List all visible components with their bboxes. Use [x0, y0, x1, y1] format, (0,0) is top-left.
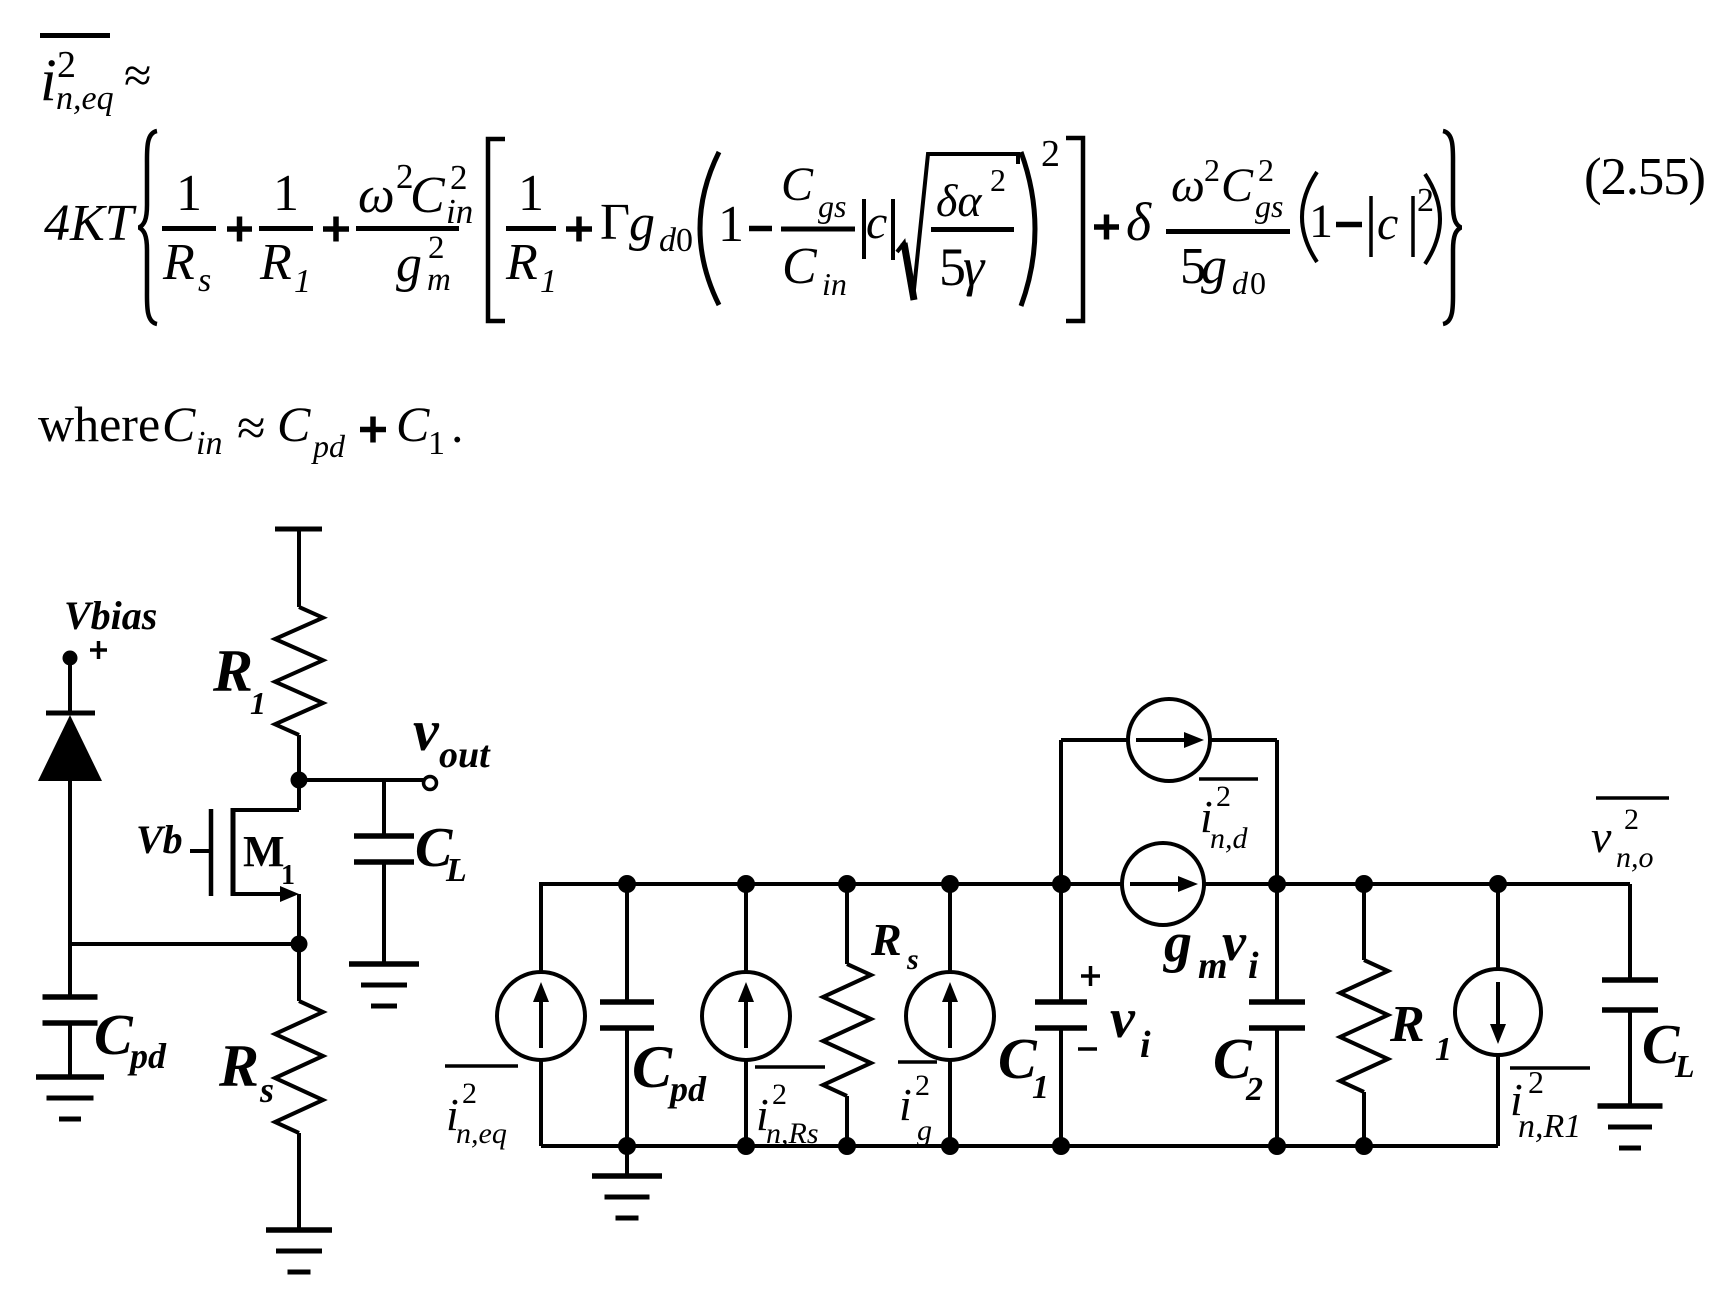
svg-text:n,R1: n,R1 [1518, 1108, 1581, 1145]
ground below CL (left circuit) [349, 964, 419, 1006]
svg-text:v: v [1110, 988, 1136, 1050]
label i2nd [1199, 779, 1258, 855]
controlled source gm*vi [1122, 843, 1204, 925]
label i2neq [445, 1066, 518, 1150]
label vno (output noise voltage) [1591, 798, 1669, 874]
Vbias terminal [63, 593, 158, 666]
capacitor C2 [1213, 884, 1305, 1146]
svg-text:out: out [439, 734, 491, 776]
svg-text:v: v [1222, 912, 1247, 972]
current source i2g [906, 884, 994, 1146]
big right brace } [1443, 131, 1461, 324]
capacitor CL (left circuit) [354, 780, 467, 964]
bottom rail (right circuit) [541, 1144, 1498, 1148]
output terminal v_out (open circle) [413, 698, 491, 790]
capacitor Cpd (left circuit) [43, 944, 168, 1077]
current source i2nRs [702, 884, 790, 1146]
svg-text:2: 2 [1245, 1071, 1263, 1108]
svg-text:M: M [243, 827, 285, 876]
overline of i2neq (equation head) [40, 33, 110, 38]
absolute value bars |c| (second) [1371, 196, 1413, 257]
svg-text:s: s [259, 1070, 274, 1110]
svg-text:L: L [445, 852, 467, 889]
resistor Rs (left circuit) [218, 944, 323, 1230]
label i2nR1 [1510, 1064, 1590, 1145]
capacitor Cpd (right circuit) [600, 884, 707, 1146]
node dots Cpd branch [618, 875, 636, 1155]
svg-text:1: 1 [1032, 1069, 1049, 1106]
svg-text:i: i [899, 1079, 912, 1130]
svg-text:pd: pd [667, 1069, 707, 1109]
svg-text:2: 2 [1528, 1064, 1544, 1100]
VDD supply rail (left circuit) [275, 529, 322, 607]
svg-text:pd: pd [127, 1036, 167, 1076]
node source/input (junction dot) [291, 936, 308, 953]
ground below bottom rail (right circuit) [592, 1146, 662, 1218]
svg-text:R: R [1389, 996, 1425, 1053]
svg-text:n,Rs: n,Rs [766, 1117, 819, 1150]
vi plus/minus marks [1078, 966, 1100, 1049]
resistor Rs (right circuit) [823, 884, 919, 1146]
node dots R1 branch [1355, 875, 1373, 1155]
svg-text:C: C [632, 1034, 673, 1100]
node dot i2nR1 top [1489, 875, 1507, 893]
label i2nRs [755, 1067, 825, 1150]
node dots gm cell [1053, 875, 1286, 893]
svg-text:n,eq: n,eq [456, 1117, 507, 1150]
top rail (right circuit) [539, 882, 1630, 886]
node dots i2g branch [941, 875, 959, 1155]
small right paren ) [1425, 174, 1440, 264]
svg-text:R: R [870, 914, 902, 965]
node dot C2 bottom [1268, 1137, 1286, 1155]
svg-text:1: 1 [1435, 1031, 1452, 1068]
label Vb (gate bias) [136, 817, 183, 862]
svg-text:L: L [1674, 1048, 1695, 1084]
ground below CL (right circuit) [1598, 1106, 1663, 1148]
wire R1 to vout node [297, 735, 301, 780]
svg-text:g: g [1162, 912, 1192, 974]
big right paren ) [1021, 152, 1035, 306]
svg-text:2: 2 [462, 1077, 477, 1110]
node dots Rs branch [838, 875, 856, 1155]
svg-text:R: R [218, 1033, 259, 1099]
svg-text:v: v [1591, 811, 1612, 862]
svg-text:i: i [1140, 1024, 1151, 1066]
svg-text:C: C [94, 1002, 134, 1067]
small left paren ( [1302, 172, 1317, 262]
node dots C1 branch [1052, 875, 1070, 1155]
svg-text:v: v [413, 698, 440, 763]
resistor R1 (left circuit) [212, 607, 323, 735]
current source i2neq [497, 884, 585, 1146]
capacitor C1 [998, 884, 1087, 1146]
fraction bars of equation [162, 229, 1290, 232]
node dots i2nRs branch [737, 875, 755, 1155]
label vi [1110, 988, 1151, 1066]
capacitor CL (right circuit) [1602, 884, 1695, 1106]
svg-text:2: 2 [1624, 803, 1639, 836]
big left paren ( [700, 152, 719, 305]
svg-text:Vbias: Vbias [64, 593, 157, 638]
svg-text:Vb: Vb [136, 817, 183, 862]
radical sign [897, 154, 1018, 300]
svg-text:g: g [917, 1114, 932, 1147]
big left brace { [139, 131, 157, 324]
svg-text:n,d: n,d [1210, 822, 1249, 855]
svg-text:s: s [906, 943, 919, 976]
photodiode D1 [38, 664, 102, 944]
svg-text:n,o: n,o [1616, 841, 1654, 874]
svg-text:1: 1 [281, 860, 295, 891]
ground below Cpd (left circuit) [36, 1077, 104, 1119]
svg-text:i: i [1248, 945, 1259, 987]
right bracket ] [1066, 138, 1083, 321]
svg-text:R: R [212, 638, 253, 704]
wire photodiode node to source node [70, 942, 299, 946]
transistor M1 [190, 780, 299, 944]
svg-text:2: 2 [1216, 780, 1231, 813]
wire vout node to output terminal [299, 778, 427, 782]
plus sign at Vbias [90, 641, 107, 659]
left bracket [ [488, 139, 505, 321]
absolute value bars |c| (first) [864, 199, 893, 260]
current source i2nd (loop above rail) [1061, 699, 1277, 884]
ground below Rs [266, 1230, 332, 1272]
svg-text:2: 2 [915, 1069, 930, 1102]
plus and minus signs of equation [227, 215, 1362, 443]
svg-text:2: 2 [772, 1078, 787, 1111]
current source i2nR1 [1455, 884, 1541, 1146]
label i2g [898, 1062, 937, 1147]
label gm vi [1162, 912, 1259, 987]
resistor R1 (right circuit) [1340, 884, 1452, 1146]
svg-text:1: 1 [250, 685, 266, 721]
node vout (junction dot) [291, 772, 308, 789]
